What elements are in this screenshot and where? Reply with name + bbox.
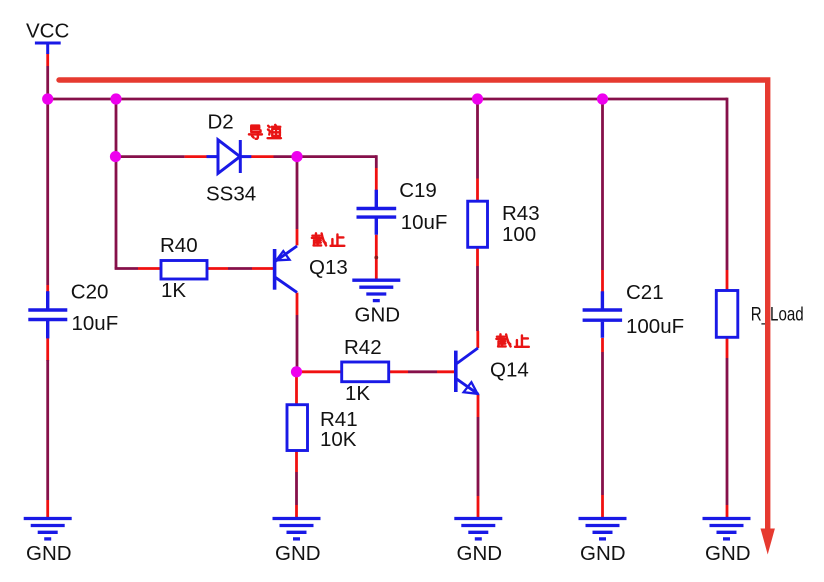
wire top VCC bus (y=99) xyxy=(48,98,727,101)
svg-text:C19: C19 xyxy=(399,179,437,202)
wire branch down to R40 (x=116 corner to R40 left) xyxy=(115,157,161,269)
svg-text:GND: GND xyxy=(580,542,626,565)
svg-text:R40: R40 xyxy=(160,234,198,257)
ground symbol under R41 xyxy=(273,519,321,539)
svg-text:100uF: 100uF xyxy=(626,315,684,338)
svg-text:10uF: 10uF xyxy=(401,211,448,234)
capacitor C21 xyxy=(583,291,623,338)
red state label daotong (conducting) xyxy=(0,0,1,1)
red state label "cutoff" (jie zhi) for Q13 xyxy=(312,233,344,246)
ground symbol under R_Load xyxy=(703,519,751,539)
svg-text:D2: D2 xyxy=(208,110,234,133)
svg-text:GND: GND xyxy=(275,542,321,565)
wire Q14 emitter to GND xyxy=(477,394,480,518)
capacitor C20 xyxy=(28,291,67,338)
svg-text:100: 100 xyxy=(502,223,536,246)
wire node down to Q13 emitter xyxy=(296,157,299,246)
svg-text:10uF: 10uF xyxy=(72,312,119,335)
node junction dot D2 branch top xyxy=(110,93,121,104)
resistor R_Load xyxy=(716,291,738,338)
svg-text:1K: 1K xyxy=(161,279,186,302)
svg-text:GND: GND xyxy=(705,542,751,565)
wire R43 bottom to Q14 collector xyxy=(476,247,479,348)
svg-text:Q13: Q13 xyxy=(309,256,348,279)
wire node to R42 left xyxy=(297,370,342,373)
wire node to C19 top xyxy=(297,155,376,191)
wire left branch to C20 (x=47.7) xyxy=(46,99,49,292)
red state label "conducting" (dao tong) for D2 xyxy=(249,125,281,139)
wire R_Load bottom to GND xyxy=(726,337,729,518)
svg-text:Q14: Q14 xyxy=(490,359,529,382)
capacitor C19 xyxy=(357,190,397,235)
wire branch to D2/R40 (x=116) xyxy=(116,99,207,157)
current flow arrowhead xyxy=(761,529,775,555)
wire branch to R_Load (x=726.5) xyxy=(726,98,729,291)
node junction dot R43 branch xyxy=(472,93,483,104)
svg-text:1K: 1K xyxy=(345,382,370,405)
resistor R41 xyxy=(287,405,308,451)
resistor R43 xyxy=(468,201,488,247)
svg-text:C21: C21 xyxy=(626,281,664,304)
node junction dot D2 anode xyxy=(110,151,121,162)
ground symbol under C21 xyxy=(579,519,627,539)
svg-text:10K: 10K xyxy=(320,428,357,451)
wire C19 bottom to GND xyxy=(375,235,378,280)
svg-text:C20: C20 xyxy=(71,281,109,304)
resistor R42 xyxy=(342,362,389,382)
node junction dot VCC column xyxy=(42,93,53,104)
svg-text:GND: GND xyxy=(457,542,503,565)
wire R40 right to Q13 base xyxy=(207,267,273,270)
pin end dot C19 pin 2 xyxy=(374,256,378,260)
wire branch to R43 (x=477.5) xyxy=(476,99,479,201)
transistor Q14 (NPN) xyxy=(456,348,479,394)
wire Q13 collector down to node xyxy=(296,293,299,372)
wire C20 bottom to GND xyxy=(46,338,49,518)
wire C21 bottom to GND xyxy=(601,338,604,518)
svg-text:GND: GND xyxy=(355,304,401,327)
svg-text:R_Load: R_Load xyxy=(751,304,804,326)
diode D2 xyxy=(207,140,252,174)
red state label "cutoff" (jie zhi) for Q14 xyxy=(496,334,528,347)
wire R41 bottom to GND xyxy=(295,451,298,519)
wire branch to C21 (x=602.5) xyxy=(601,99,604,292)
svg-text:R42: R42 xyxy=(344,336,382,359)
node junction dot C21 branch xyxy=(597,93,608,104)
VCC power symbol xyxy=(35,43,61,54)
wire R42 right to Q14 base xyxy=(389,370,455,373)
node junction dot Q13 collector / R41 / R42 xyxy=(291,366,302,377)
svg-text:R43: R43 xyxy=(502,202,540,225)
ground symbol under Q14 xyxy=(454,519,502,539)
ground symbol under C20 xyxy=(24,519,72,539)
node junction dot D2 cathode xyxy=(291,151,302,162)
svg-text:SS34: SS34 xyxy=(206,183,256,206)
transistor Q13 (PNP) xyxy=(275,246,297,292)
svg-text:VCC: VCC xyxy=(26,20,69,43)
current flow arrow (thick red path VCC to load) xyxy=(59,80,768,531)
wire node down to R41 top xyxy=(295,372,298,405)
wire D2 cathode to node xyxy=(251,155,297,158)
resistor R40 xyxy=(161,261,207,280)
svg-text:GND: GND xyxy=(26,542,72,565)
wire VCC stem (x=47.7, y 54-99) xyxy=(46,54,49,100)
ground symbol under C19 xyxy=(352,280,400,300)
